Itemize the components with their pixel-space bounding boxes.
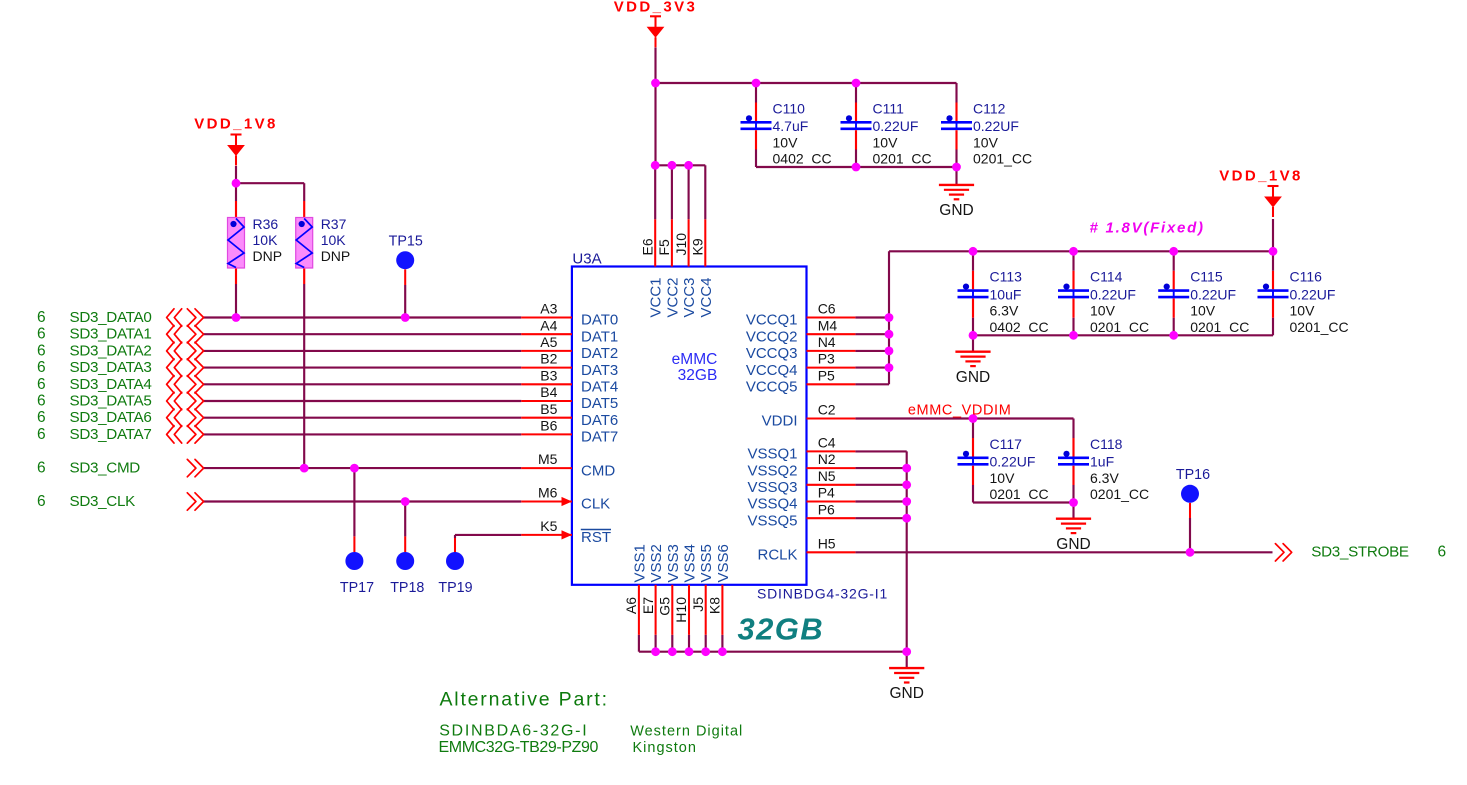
svg-text:Alternative Part:: Alternative Part: — [440, 689, 609, 711]
svg-text:VDDI: VDDI — [762, 413, 798, 430]
svg-text:10K: 10K — [253, 232, 279, 248]
svg-text:0201_CC: 0201_CC — [973, 151, 1032, 167]
svg-text:H5: H5 — [818, 535, 836, 551]
svg-text:DAT6: DAT6 — [581, 412, 618, 429]
svg-text:6: 6 — [37, 460, 46, 477]
svg-text:M6: M6 — [538, 485, 558, 501]
svg-text:6: 6 — [1438, 544, 1447, 561]
svg-text:Western Digital: Western Digital — [630, 724, 743, 740]
svg-text:VSS5: VSS5 — [698, 544, 715, 582]
svg-text:SD3_CLK: SD3_CLK — [70, 493, 136, 510]
svg-text:TP16: TP16 — [1176, 467, 1210, 483]
svg-text:B2: B2 — [540, 351, 557, 367]
svg-text:SDINBDA6-32G-I: SDINBDA6-32G-I — [439, 723, 588, 740]
svg-text:A4: A4 — [540, 317, 557, 333]
svg-text:VDD_3V3: VDD_3V3 — [614, 0, 698, 16]
svg-text:0201 CC: 0201 CC — [1190, 319, 1249, 335]
svg-text:SD3_DATA6: SD3_DATA6 — [70, 409, 152, 426]
svg-text:F5: F5 — [656, 239, 672, 256]
svg-text:DAT1: DAT1 — [581, 328, 618, 345]
svg-text:VSS4: VSS4 — [682, 544, 699, 582]
svg-text:6: 6 — [37, 326, 46, 343]
svg-text:R37: R37 — [321, 216, 347, 232]
svg-text:M4: M4 — [818, 317, 838, 333]
svg-text:VCCQ5: VCCQ5 — [746, 379, 798, 396]
svg-text:J5: J5 — [690, 597, 706, 612]
svg-text:M5: M5 — [538, 451, 558, 467]
svg-text:C114: C114 — [1090, 269, 1123, 285]
svg-text:VSS3: VSS3 — [665, 544, 682, 582]
svg-text:DAT4: DAT4 — [581, 379, 618, 396]
svg-text:B6: B6 — [540, 418, 557, 434]
svg-text:32GB: 32GB — [678, 367, 718, 384]
svg-text:K9: K9 — [690, 238, 706, 255]
svg-text:DAT2: DAT2 — [581, 345, 618, 362]
svg-text:GND: GND — [939, 202, 973, 219]
svg-text:10V: 10V — [773, 134, 799, 150]
svg-text:GND: GND — [956, 369, 990, 386]
svg-text:0.22UF: 0.22UF — [873, 118, 919, 134]
svg-text:K8: K8 — [707, 597, 723, 614]
svg-text:P5: P5 — [818, 367, 835, 383]
svg-text:C2: C2 — [818, 402, 836, 418]
svg-text:SD3_DATA0: SD3_DATA0 — [70, 309, 152, 326]
svg-text:6: 6 — [37, 393, 46, 410]
svg-text:P6: P6 — [818, 501, 835, 517]
svg-text:0402 CC: 0402 CC — [990, 319, 1049, 335]
svg-text:A5: A5 — [540, 334, 557, 350]
svg-text:0201 CC: 0201 CC — [990, 486, 1049, 502]
svg-text:U3A: U3A — [572, 251, 601, 268]
svg-text:C4: C4 — [818, 435, 836, 451]
svg-text:6: 6 — [37, 409, 46, 426]
svg-text:SD3_DATA1: SD3_DATA1 — [70, 326, 152, 343]
svg-text:0201_CC: 0201_CC — [1090, 486, 1149, 502]
svg-text:VCCQ2: VCCQ2 — [746, 328, 798, 345]
svg-text:B3: B3 — [540, 367, 557, 383]
svg-text:6: 6 — [37, 376, 46, 393]
svg-text:H10: H10 — [673, 597, 689, 623]
svg-text:N4: N4 — [818, 334, 836, 350]
svg-text:TP19: TP19 — [438, 580, 472, 596]
svg-text:VCC4: VCC4 — [698, 278, 715, 318]
svg-text:10V: 10V — [990, 470, 1016, 486]
svg-text:eMMC_VDDIM: eMMC_VDDIM — [908, 402, 1011, 418]
svg-text:GND: GND — [889, 685, 923, 702]
svg-text:DAT3: DAT3 — [581, 362, 618, 379]
svg-text:C113: C113 — [990, 269, 1023, 285]
svg-text:VSSQ5: VSSQ5 — [747, 512, 797, 529]
svg-text:VSSQ2: VSSQ2 — [747, 462, 797, 479]
svg-text:CLK: CLK — [581, 496, 610, 513]
svg-text:R36: R36 — [253, 216, 279, 232]
svg-text:0402 CC: 0402 CC — [773, 151, 832, 167]
svg-text:0201 CC: 0201 CC — [873, 151, 932, 167]
svg-text:0.22UF: 0.22UF — [1090, 287, 1136, 303]
svg-text:6: 6 — [37, 426, 46, 443]
svg-text:VCC2: VCC2 — [664, 278, 681, 318]
svg-text:E6: E6 — [639, 238, 655, 255]
svg-text:DNP: DNP — [321, 248, 351, 264]
svg-text:RCLK: RCLK — [757, 547, 797, 564]
svg-text:P4: P4 — [818, 485, 835, 501]
svg-text:Kingston: Kingston — [633, 740, 697, 756]
svg-text:EMMC32G-TB29-PZ90: EMMC32G-TB29-PZ90 — [439, 739, 599, 756]
svg-text:C6: C6 — [818, 301, 836, 317]
svg-text:6.3V: 6.3V — [1090, 470, 1119, 486]
svg-text:10V: 10V — [1090, 303, 1116, 319]
svg-text:10V: 10V — [1190, 303, 1216, 319]
svg-text:GND: GND — [1056, 536, 1090, 553]
svg-text:10uF: 10uF — [990, 287, 1022, 303]
svg-text:6: 6 — [37, 493, 46, 510]
svg-text:DNP: DNP — [253, 248, 283, 264]
svg-text:DAT0: DAT0 — [581, 312, 618, 329]
svg-text:C110: C110 — [773, 100, 806, 116]
svg-text:0.22UF: 0.22UF — [990, 454, 1036, 470]
svg-text:10K: 10K — [321, 232, 347, 248]
svg-text:0201 CC: 0201 CC — [1090, 319, 1149, 335]
svg-text:VDD_1V8: VDD_1V8 — [194, 116, 278, 133]
svg-text:C115: C115 — [1190, 269, 1223, 285]
svg-text:0.22UF: 0.22UF — [1190, 287, 1236, 303]
svg-text:C116: C116 — [1290, 269, 1323, 285]
svg-text:K5: K5 — [540, 518, 557, 534]
svg-text:C118: C118 — [1090, 436, 1123, 452]
svg-text:VSS2: VSS2 — [648, 544, 665, 582]
svg-text:SD3_CMD: SD3_CMD — [70, 460, 141, 477]
svg-text:SD3_DATA5: SD3_DATA5 — [70, 393, 152, 410]
svg-text:VSSQ3: VSSQ3 — [747, 479, 797, 496]
svg-text:0201_CC: 0201_CC — [1290, 319, 1349, 335]
svg-text:E7: E7 — [640, 597, 656, 614]
svg-text:N2: N2 — [818, 451, 836, 467]
svg-text:10V: 10V — [1290, 303, 1316, 319]
svg-text:6.3V: 6.3V — [990, 303, 1019, 319]
svg-text:6: 6 — [37, 359, 46, 376]
svg-text:10V: 10V — [873, 134, 899, 150]
svg-text:# 1.8V(Fixed): # 1.8V(Fixed) — [1090, 220, 1205, 237]
svg-text:0.22UF: 0.22UF — [1290, 287, 1336, 303]
svg-text:B5: B5 — [540, 401, 557, 417]
svg-text:VCCQ4: VCCQ4 — [746, 362, 798, 379]
svg-text:0.22UF: 0.22UF — [973, 118, 1019, 134]
svg-text:VSSQ4: VSSQ4 — [747, 496, 797, 513]
svg-text:SD3_STROBE: SD3_STROBE — [1311, 544, 1409, 561]
svg-text:TP17: TP17 — [340, 580, 374, 596]
svg-text:SDINBDG4-32G-I1: SDINBDG4-32G-I1 — [757, 586, 888, 602]
svg-text:DAT7: DAT7 — [581, 429, 618, 446]
svg-text:G5: G5 — [657, 597, 673, 616]
svg-text:CMD: CMD — [581, 462, 615, 479]
svg-text:C111: C111 — [873, 100, 905, 116]
svg-text:32GB: 32GB — [738, 612, 825, 647]
svg-text:P3: P3 — [818, 351, 835, 367]
svg-text:10V: 10V — [973, 134, 999, 150]
svg-text:A3: A3 — [540, 301, 557, 317]
svg-text:RST: RST — [581, 529, 611, 546]
svg-text:DAT5: DAT5 — [581, 395, 618, 412]
svg-text:SD3_DATA2: SD3_DATA2 — [70, 342, 152, 359]
svg-text:SD3_DATA7: SD3_DATA7 — [70, 426, 152, 443]
svg-text:TP15: TP15 — [389, 234, 423, 250]
svg-text:VSS6: VSS6 — [715, 544, 732, 582]
svg-text:6: 6 — [37, 309, 46, 326]
svg-text:VCCQ3: VCCQ3 — [746, 345, 798, 362]
svg-text:A6: A6 — [623, 597, 639, 614]
svg-text:N5: N5 — [818, 468, 836, 484]
svg-text:VSSQ1: VSSQ1 — [747, 446, 797, 463]
svg-text:6: 6 — [37, 342, 46, 359]
svg-text:VSS1: VSS1 — [631, 544, 648, 582]
svg-text:C117: C117 — [990, 436, 1023, 452]
svg-text:TP18: TP18 — [390, 580, 424, 596]
svg-text:VCC1: VCC1 — [648, 278, 665, 318]
svg-text:VCC3: VCC3 — [681, 278, 698, 318]
svg-text:C112: C112 — [973, 100, 1006, 116]
svg-text:J10: J10 — [673, 233, 689, 256]
svg-text:4.7uF: 4.7uF — [773, 118, 809, 134]
svg-text:SD3_DATA4: SD3_DATA4 — [70, 376, 152, 393]
svg-text:eMMC: eMMC — [672, 351, 718, 368]
svg-text:B4: B4 — [540, 384, 557, 400]
svg-text:1uF: 1uF — [1090, 454, 1114, 470]
svg-text:VCCQ1: VCCQ1 — [746, 312, 798, 329]
svg-text:VDD_1V8: VDD_1V8 — [1219, 168, 1303, 185]
svg-text:SD3_DATA3: SD3_DATA3 — [70, 359, 152, 376]
